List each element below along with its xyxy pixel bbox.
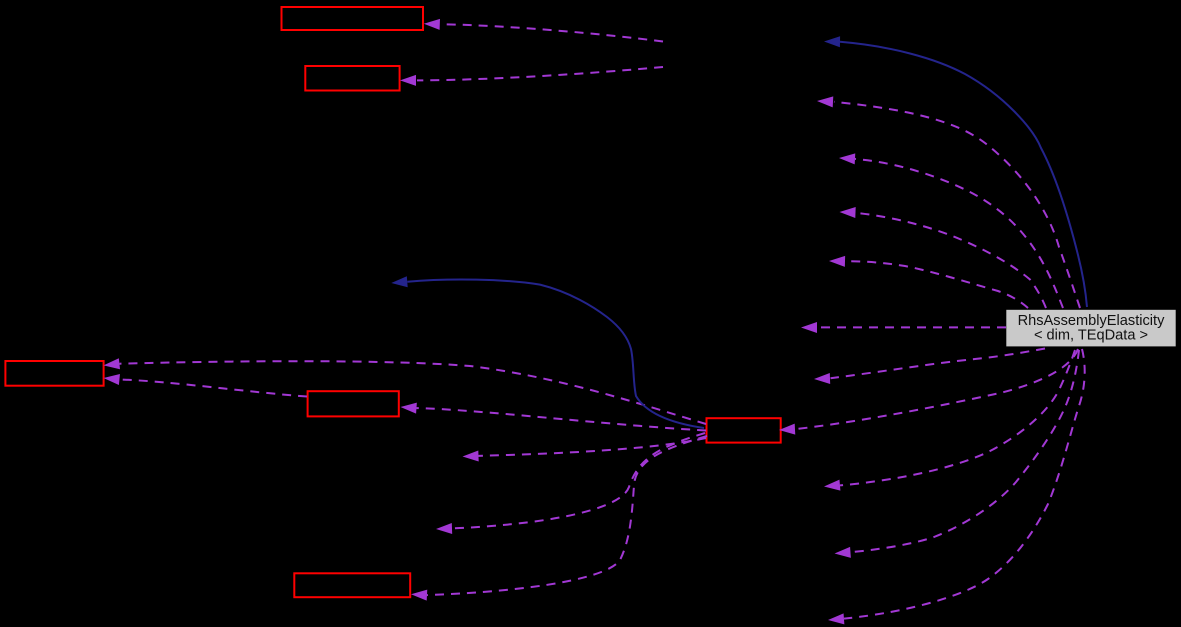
arrowhead I1 at box1: [424, 18, 440, 30]
edge L1 (main node to invisible, purple dashed horizontal): [818, 326, 1006, 328]
edge C6 (centralbox to bottombox, purple dashed): [427, 436, 707, 595]
edge B1 (main node to invisible, purple dashed): [831, 349, 1046, 379]
edge T2 (main node to invisible, purple dashed): [834, 102, 1080, 308]
arrowhead B4: [834, 547, 851, 559]
arrowhead B2 at centralbox: [779, 424, 796, 436]
arrowhead C1 at leftbox: [103, 358, 120, 371]
edge B5 (main node to invisible, purple dashed): [844, 349, 1085, 619]
svg-text:< dim, TEqData >: < dim, TEqData >: [1034, 328, 1148, 344]
arrowhead L1: [801, 322, 817, 333]
node RhsAssemblyElasticity (current class, grey): [1006, 310, 1175, 347]
arrowhead B1: [814, 373, 830, 385]
edge T3 (main node to invisible, purple dashed): [855, 159, 1063, 308]
edge I1 (invisible node to box1, purple dashed): [441, 24, 663, 41]
arrowhead T2: [817, 96, 834, 108]
svg-text:RhsAssemblyElasticity: RhsAssemblyElasticity: [1018, 313, 1165, 329]
arrowhead T4: [839, 207, 855, 219]
arrowhead B3: [824, 480, 841, 492]
edge C4 (centralbox to invisible, purple dashed): [479, 438, 707, 456]
edge M1 (midbox to leftbox, purple dashed): [119, 380, 307, 397]
edge B4 (main node to invisible, purple dashed): [850, 350, 1079, 552]
arrowhead C6 at bottombox: [411, 589, 428, 601]
node leftbox (far-left truncated class, red): [5, 361, 103, 386]
edge C1 (centralbox to leftbox, purple dashed): [119, 361, 706, 424]
edge T1 (main node to invisible, blue solid inheritance): [840, 42, 1087, 307]
arrowhead T3: [839, 153, 856, 165]
node midbox (middle truncated class, red): [308, 391, 399, 416]
node box2 (second top-left truncated class, red): [305, 66, 399, 91]
edge C3 (centralbox to midbox, purple dashed): [416, 408, 706, 430]
edge B2 (main node to centralbox, purple dashed): [795, 349, 1078, 429]
edge C5 (centralbox to invisible, purple dashed): [452, 433, 705, 528]
node box1 (top-left truncated class, red): [282, 7, 424, 30]
arrowhead T1 blue: [824, 36, 840, 47]
arrowhead C4: [462, 450, 478, 462]
arrowhead I2 at box2: [400, 75, 416, 86]
edge B3 (main node to invisible, purple dashed): [840, 350, 1075, 485]
edge T4 (main node to invisible, purple dashed): [856, 213, 1047, 308]
edge I2 (invisible node to box2, purple dashed): [417, 67, 663, 80]
arrowhead B5: [828, 613, 845, 625]
edge T5 (main node to invisible, purple dashed): [845, 261, 1028, 308]
edge C7 (centralbox to invisible, blue solid inheritance): [407, 280, 704, 428]
arrowhead C7 blue: [391, 276, 408, 288]
arrowhead C5: [436, 523, 452, 535]
arrowhead C3 at midbox: [400, 402, 417, 414]
node bottombox (bottom truncated class, red): [294, 573, 410, 597]
arrowhead T5: [829, 256, 845, 267]
node centralbox (central truncated class, red): [707, 418, 781, 442]
arrowhead M1 at leftbox: [103, 373, 120, 385]
